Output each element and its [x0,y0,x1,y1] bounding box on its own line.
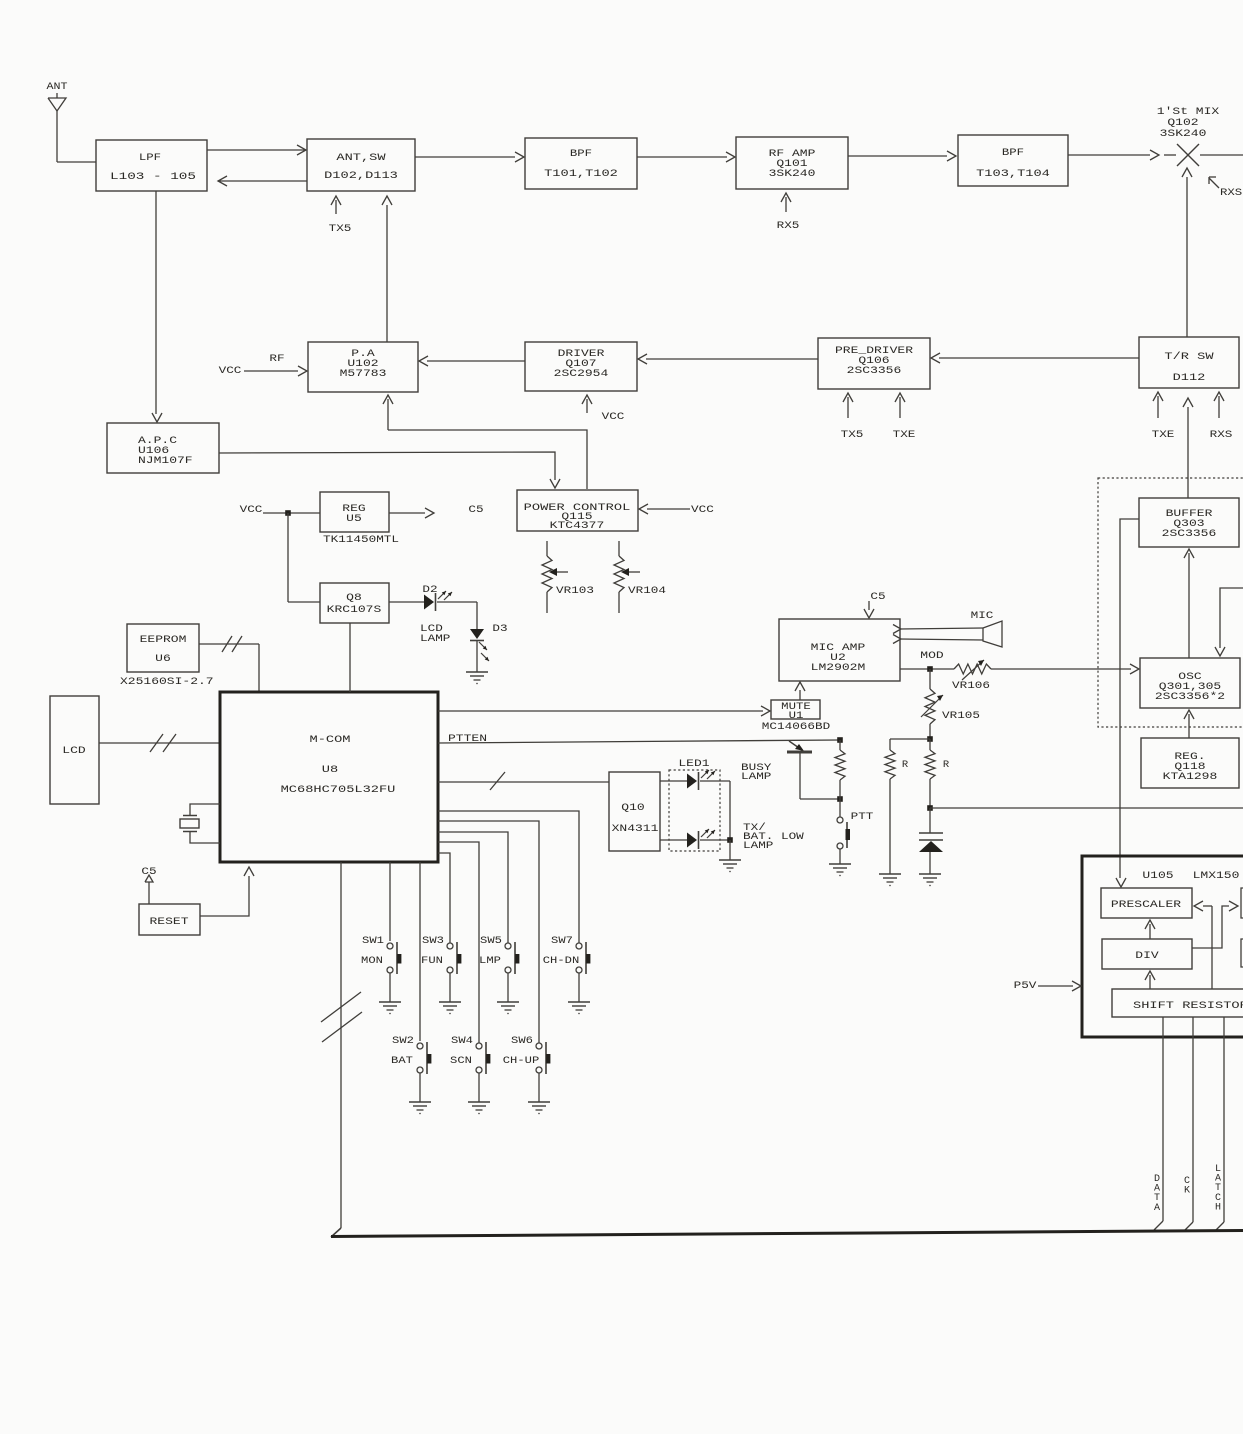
svg-text:VR106: VR106 [952,680,990,692]
svg-text:T/R SW: T/R SW [1164,351,1214,363]
svg-text:KTC4377: KTC4377 [550,520,605,532]
svg-text:Q8: Q8 [346,592,362,604]
svg-text:TX5: TX5 [841,429,864,441]
svg-text:3SK240: 3SK240 [1160,128,1207,140]
svg-text:LMX150: LMX150 [1193,870,1240,882]
svg-text:D3: D3 [492,623,507,635]
svg-text:LED1: LED1 [678,758,709,770]
svg-text:SW7: SW7 [551,935,573,947]
svg-text:RXS: RXS [1220,187,1242,199]
svg-text:LPF: LPF [139,152,161,164]
svg-text:Q10: Q10 [621,802,644,814]
svg-text:BAT: BAT [391,1055,413,1067]
svg-text:DIV: DIV [1135,950,1159,962]
svg-text:MC68HC705L32FU: MC68HC705L32FU [281,784,396,796]
svg-text:LAMP: LAMP [420,633,450,645]
svg-text:LCD: LCD [62,745,85,757]
svg-text:MIC: MIC [971,610,994,622]
svg-text:SW5: SW5 [480,935,502,947]
svg-text:L103 - 105: L103 - 105 [110,171,196,183]
svg-text:MON: MON [361,955,383,967]
svg-text:K: K [1184,1186,1190,1197]
svg-text:CH-UP: CH-UP [503,1055,540,1067]
svg-text:BPF: BPF [1002,147,1024,159]
svg-text:KTA1298: KTA1298 [1163,771,1218,783]
svg-text:ANT: ANT [47,81,68,93]
svg-text:M-COM: M-COM [310,734,351,746]
svg-text:X25160SI-2.7: X25160SI-2.7 [120,676,214,688]
svg-text:LMP: LMP [479,955,501,967]
svg-text:H: H [1215,1202,1221,1213]
svg-text:PTT: PTT [851,811,874,823]
svg-text:XN4311: XN4311 [612,823,659,835]
svg-text:SW6: SW6 [511,1035,533,1047]
svg-text:3SK240: 3SK240 [769,168,816,180]
svg-text:U8: U8 [322,764,338,776]
svg-text:VCC: VCC [691,504,714,516]
svg-text:VCC: VCC [602,411,625,423]
svg-text:TK11450MTL: TK11450MTL [323,534,399,546]
svg-text:A: A [1154,1203,1160,1214]
svg-text:C5: C5 [468,504,483,516]
svg-text:SW1: SW1 [362,935,384,947]
svg-text:U5: U5 [346,513,362,525]
svg-text:2SC3356*2: 2SC3356*2 [1155,691,1225,703]
svg-text:RX5: RX5 [777,220,800,232]
svg-text:U6: U6 [155,653,171,665]
svg-text:C5: C5 [870,591,885,603]
svg-text:FUN: FUN [421,955,443,967]
svg-text:SW2: SW2 [392,1035,414,1047]
svg-text:D2: D2 [422,584,437,596]
svg-text:TXE: TXE [1152,429,1175,441]
svg-text:D112: D112 [1173,372,1206,384]
svg-text:D102,D113: D102,D113 [324,170,398,182]
svg-text:VCC: VCC [240,504,263,516]
svg-text:CH-DN: CH-DN [543,955,580,967]
svg-text:LM2902M: LM2902M [811,662,866,674]
svg-text:RXS: RXS [1210,429,1233,441]
svg-text:MOD: MOD [920,650,943,662]
svg-text:EEPROM: EEPROM [140,634,187,646]
svg-text:KRC107S: KRC107S [327,604,382,616]
svg-text:2SC3356: 2SC3356 [1162,528,1217,540]
svg-text:PRESCALER: PRESCALER [1111,899,1182,911]
svg-text:TXE: TXE [893,429,916,441]
svg-text:SW3: SW3 [422,935,444,947]
svg-text:VR104: VR104 [628,585,666,597]
svg-text:SW4: SW4 [451,1035,473,1047]
svg-text:VCC: VCC [219,365,242,377]
svg-text:RF: RF [269,353,284,365]
svg-text:T101,T102: T101,T102 [544,168,618,180]
svg-text:MC14066BD: MC14066BD [762,721,830,733]
svg-text:U105: U105 [1142,870,1173,882]
svg-text:SCN: SCN [450,1055,472,1067]
svg-text:TX5: TX5 [329,223,352,235]
svg-text:M57783: M57783 [340,368,387,380]
svg-text:SHIFT RESISTOR: SHIFT RESISTOR [1133,1000,1243,1012]
svg-text:R: R [943,759,950,771]
svg-text:2SC3356: 2SC3356 [847,365,902,377]
svg-text:RESET: RESET [150,916,189,928]
svg-text:VR105: VR105 [942,710,980,722]
svg-text:VR103: VR103 [556,585,594,597]
svg-text:R: R [902,759,909,771]
svg-text:T103,T104: T103,T104 [976,168,1050,180]
svg-text:LAMP: LAMP [743,840,773,852]
svg-text:ANT,SW: ANT,SW [336,152,386,164]
svg-text:BPF: BPF [570,148,592,160]
svg-text:P5V: P5V [1014,980,1038,992]
svg-text:2SC2954: 2SC2954 [554,368,609,380]
svg-text:LAMP: LAMP [741,771,771,783]
svg-text:NJM107F: NJM107F [138,455,193,467]
